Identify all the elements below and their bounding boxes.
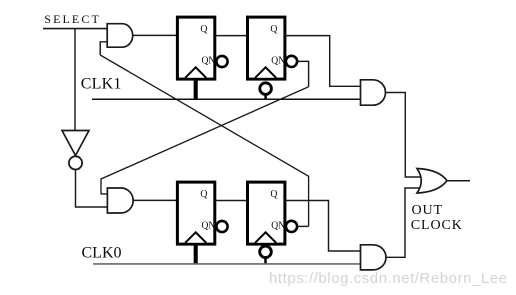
clock inverter bubble of FF4 <box>260 246 272 258</box>
and-gate U3 bottom select AND <box>107 188 133 213</box>
wire U1 lower input elbow <box>100 42 107 55</box>
clock stub of FF4 to CLK0 <box>264 258 267 264</box>
svg-text:Q: Q <box>270 188 277 200</box>
clock triangle of FF1 <box>185 67 206 78</box>
wire cross feedback from bottom FF4 QN to U1 (diagonal A) <box>100 55 308 226</box>
wire FF1 Q to FF2 D <box>215 35 248 37</box>
svg-text:SELECT: SELECT <box>44 12 101 26</box>
or-gate U5 output OR <box>417 169 447 194</box>
inverter V1 bubble <box>69 156 82 169</box>
svg-text:CLK1: CLK1 <box>81 76 122 93</box>
wire U3 output to FF3 D <box>133 199 178 201</box>
wire SELECT branch to inverter <box>74 29 76 131</box>
svg-text:CLK0: CLK0 <box>82 245 122 262</box>
clock triangle of FF4 <box>255 232 276 243</box>
wire U1 output to FF1 D <box>133 34 178 36</box>
wire FF4 QN to diagonal A <box>297 225 309 227</box>
svg-text:QN: QN <box>271 54 285 66</box>
and-gate U1 top select AND <box>107 24 133 48</box>
flip-flop FF1 body <box>177 17 214 79</box>
wire SELECT input <box>43 28 107 30</box>
wire FF3 Q to FF4 D <box>215 200 248 202</box>
bubble QN output FF1 <box>216 56 227 67</box>
wire cross feedback from FF2 QN to U3 (diagonal B) <box>101 87 309 194</box>
clock inverter bubble of FF2 <box>260 83 272 95</box>
clock stub of FF1 to CLK1 <box>194 79 198 99</box>
wire U4 output to OR lower input <box>386 188 423 257</box>
svg-text:Q: Q <box>200 188 207 200</box>
flip-flop FF4 body <box>248 182 285 244</box>
svg-text:OUT: OUT <box>412 203 443 218</box>
and-gate U4 bottom right <box>361 245 386 270</box>
clock triangle of FF3 <box>185 232 206 243</box>
svg-text:QN: QN <box>271 219 285 231</box>
bubble QN output FF2 <box>286 56 297 67</box>
svg-text:QN: QN <box>202 219 216 231</box>
svg-text:QN: QN <box>202 54 216 66</box>
wire FF4 Q to U4 upper input <box>285 201 361 252</box>
clock stub of FF2 to CLK1 <box>264 95 267 100</box>
inverter V1 triangle <box>62 131 89 156</box>
flip-flop FF3 body <box>177 182 214 244</box>
clock triangle of FF2 <box>255 67 276 78</box>
wire inverter output to U3 lower input <box>76 170 108 207</box>
and-gate U2 top right <box>361 80 386 105</box>
wire FF2 Q to U2 upper input <box>285 36 361 87</box>
wire U2 output to OR upper input <box>386 93 423 178</box>
svg-text:Q: Q <box>200 23 207 35</box>
wire CLK1 line to U2 lower input <box>92 98 361 100</box>
bubble QN output FF4 <box>286 221 297 232</box>
wire OUT CLOCK output <box>447 180 470 182</box>
wire CLK0 line to U4 lower input <box>93 263 361 265</box>
wire FF2 QN output <box>297 61 309 86</box>
svg-text:CLOCK: CLOCK <box>411 218 463 233</box>
flip-flop FF2 body <box>248 17 285 79</box>
svg-text:Q: Q <box>270 23 277 35</box>
clock stub of FF3 to CLK0 <box>194 244 198 264</box>
svg-text:https://blog.csdn.net/Reborn_L: https://blog.csdn.net/Reborn_Lee <box>269 270 508 287</box>
bubble QN output FF3 <box>216 221 227 232</box>
